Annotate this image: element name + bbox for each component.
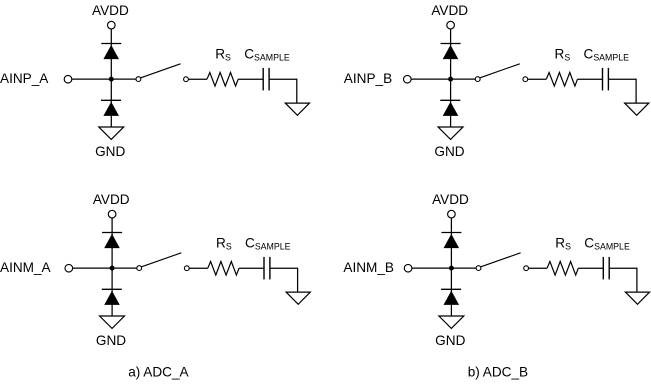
svg-text:AINM_B: AINM_B [343,260,394,275]
svg-text:a) ADC_A: a) ADC_A [128,365,189,380]
svg-text:b) ADC_B: b) ADC_B [468,365,528,380]
svg-text:AINP_B: AINP_B [344,71,392,86]
svg-text:AINP_A: AINP_A [0,71,49,86]
svg-text:AINM_A: AINM_A [0,260,52,275]
